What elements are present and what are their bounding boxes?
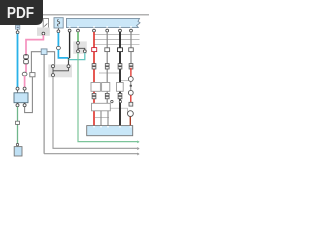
lamp 2 <box>128 90 133 95</box>
switch gray housing <box>37 28 50 36</box>
right column lamps <box>130 68 132 77</box>
small pins row <box>111 100 122 102</box>
mid boxes <box>91 83 100 92</box>
row C connector pairs <box>92 93 122 98</box>
fuse element <box>57 20 59 27</box>
component B2 <box>87 126 133 136</box>
splitter box <box>73 41 87 53</box>
teal wire from splitter to junction <box>69 53 85 60</box>
bus1 arrow <box>137 141 139 143</box>
lamp 3 <box>127 111 133 117</box>
wire bottom bus3 <box>44 153 139 155</box>
wire down from connector square <box>43 55 45 154</box>
black wire column <box>119 32 121 126</box>
wire joint down to junction <box>68 58 70 66</box>
pin <box>16 31 19 34</box>
wire gray to B1 loop <box>25 77 33 113</box>
bus3 arrow <box>137 153 139 155</box>
switch pin <box>42 32 45 35</box>
tick between lamps <box>130 81 132 90</box>
red box connector <box>92 48 97 52</box>
junction box J1 <box>48 64 72 77</box>
cyan oval connector <box>56 46 60 49</box>
bus2 arrow <box>137 148 139 150</box>
pink wire lower <box>24 76 26 87</box>
red segment <box>130 95 132 102</box>
fuse pin <box>57 30 60 33</box>
wide switch box <box>92 103 111 111</box>
right column top gray <box>130 32 132 64</box>
mesh horizontal rules <box>94 35 140 118</box>
connector (top-left, cyan feed) <box>16 25 20 29</box>
node joint <box>68 58 70 60</box>
row B connector pairs <box>92 64 133 69</box>
component B1 pins top <box>16 87 26 90</box>
pink wire <box>26 35 43 72</box>
switch contact <box>44 24 47 27</box>
row A connectors <box>105 48 110 52</box>
stubs to B2 <box>100 111 102 126</box>
top rule <box>38 14 149 16</box>
fuse F1 box <box>54 18 63 28</box>
wire right branch to J1 <box>47 52 55 65</box>
green long wire to bus <box>78 53 139 142</box>
pink oval connector <box>22 72 27 76</box>
lamp 1 <box>128 77 133 82</box>
green wire from bar <box>77 32 79 42</box>
ground block <box>14 147 22 156</box>
bar pin notches <box>69 26 132 27</box>
green inline connector <box>16 121 20 124</box>
gray wire column <box>106 32 108 105</box>
red wire column <box>93 32 95 126</box>
red into B2 <box>129 117 131 126</box>
svg-text:PDF: PDF <box>7 5 34 22</box>
wire left branch to rect connector <box>31 52 41 73</box>
component B1 <box>14 93 28 103</box>
connector <box>129 102 133 106</box>
black wire from bar <box>69 32 71 58</box>
ground pin <box>16 143 18 145</box>
cyan wire (fuse branch) <box>57 33 59 47</box>
component B1 pins bottom <box>16 104 26 107</box>
switch box white <box>43 19 48 30</box>
pink inline connector pair <box>24 55 29 59</box>
junction block bar <box>67 18 141 27</box>
connector square (blue) <box>41 49 47 55</box>
cyan wire to junction <box>58 50 68 58</box>
wire from J1 bottom to bus2 <box>53 77 139 149</box>
PDF badge <box>0 0 43 25</box>
cyan wire (left column) <box>17 34 19 87</box>
green ground wire <box>17 107 19 147</box>
rect connector <box>30 73 35 77</box>
B2 pin notches <box>93 126 131 127</box>
bar pins <box>68 29 132 32</box>
